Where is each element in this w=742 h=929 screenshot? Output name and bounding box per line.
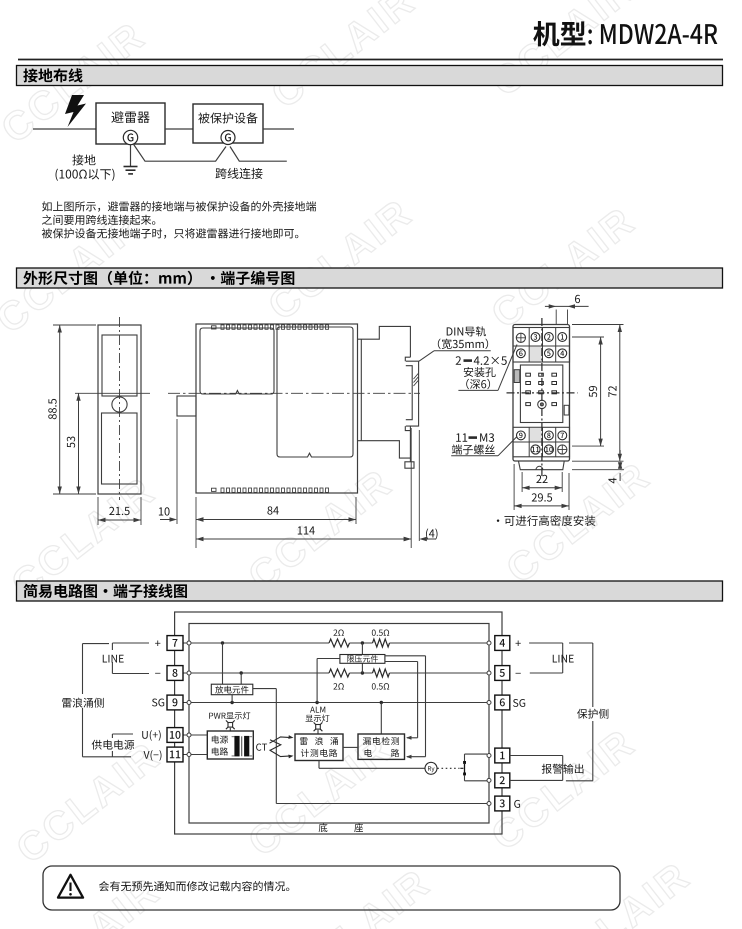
rail break marks: [414, 374, 419, 380]
body text: [42, 201, 316, 211]
relay contact: [464, 754, 466, 761]
top vent slots: [212, 325, 329, 329]
DIN rail clip notch top: [405, 357, 410, 361]
terminal 4: [558, 349, 567, 358]
pin node terminal 1 right: [487, 754, 491, 758]
right mounting bracket upper: [358, 326, 411, 357]
relay dotted link: [437, 767, 459, 769]
dimension 10: [176, 419, 178, 524]
side view body: [196, 324, 358, 493]
junction SG leakage detector: [380, 701, 383, 704]
right mounting bracket lower: [358, 441, 411, 462]
socket middle pin field: [520, 365, 562, 423]
right LINE bracket: [529, 642, 563, 644]
pin node terminal 7: [187, 641, 191, 645]
jumper wire 跨线连接: [133, 144, 226, 162]
side view module B outline: [277, 327, 353, 457]
junction SG varistor/ALM: [315, 701, 318, 704]
wire between boxes: [165, 128, 193, 130]
protection side bracket 保护侧: [569, 642, 593, 644]
socket outline: [513, 325, 570, 462]
terminal 4: [495, 636, 510, 651]
terminal 8: [545, 431, 554, 440]
wire terminal11 to power box: [183, 754, 207, 756]
label terminal screws 11-M3: [456, 433, 467, 441]
front view vertical centerline: [119, 317, 121, 500]
section bar 外形尺寸图: [17, 268, 723, 288]
warning triangle: [58, 875, 83, 898]
dimension 84: [195, 497, 197, 548]
label 底座: [319, 823, 363, 832]
pin node terminal 9: [187, 701, 191, 705]
socket top terminal block: [513, 328, 570, 363]
wire contact to terminal2: [465, 780, 488, 782]
arrester box 避雷器: [96, 103, 165, 144]
lightning bolt: [65, 95, 86, 127]
resistor 0.5ohm line7: [373, 639, 390, 647]
page title 机型: MDW2A-4R: [533, 21, 585, 46]
resistor 2ohm line8: [329, 669, 350, 677]
bottom vent slots: [212, 488, 329, 492]
pin node terminal 6 right: [487, 701, 491, 705]
base outer box 底座: [175, 612, 502, 834]
dimension 114: [196, 538, 411, 540]
left surge side bracket 雷浪涌侧: [82, 644, 84, 757]
left flange: [177, 396, 196, 416]
side view centerline: [168, 392, 420, 394]
label mounting holes 2-4.2x5: [456, 356, 461, 365]
terminal 6: [495, 695, 510, 710]
pin node terminal 4 right: [487, 641, 491, 645]
leakage detector box 漏电检测电路: [358, 734, 405, 759]
dimension 53: [78, 393, 80, 494]
label 跨线连接: [215, 168, 262, 179]
wire measuring box to relay coil: [318, 761, 320, 769]
terminal 1: [558, 333, 567, 342]
center screw: [538, 400, 546, 408]
power supply box 电源电路: [207, 731, 253, 759]
pin node terminal 10: [187, 733, 191, 737]
wire contact to terminal1: [465, 753, 488, 755]
terminal 1: [495, 748, 510, 763]
rail bottom clip: [409, 426, 411, 458]
terminal 7: [558, 431, 567, 440]
terminal 7: [167, 636, 183, 651]
pin node terminal 11: [187, 753, 191, 757]
terminal 10: [167, 728, 183, 743]
dimension 29.5: [513, 464, 515, 510]
terminal G2 of protected equipment: [221, 131, 235, 145]
ground wire from discharge to G: [253, 688, 276, 690]
module inner box: [189, 624, 489, 824]
dimension 59: [572, 336, 604, 338]
varistor right wire inner: [385, 661, 418, 663]
wire between measuring and detector: [343, 746, 358, 748]
terminal 9: [517, 431, 526, 440]
front view lower window: [102, 413, 138, 484]
wire line8 -: [183, 672, 329, 674]
relay coil Ry: [425, 762, 437, 774]
wire outgoing: [263, 128, 294, 130]
terminal 8: [167, 666, 183, 681]
varistor box 限压元件: [361, 643, 363, 655]
CT current transformer: [256, 744, 267, 751]
ground symbol: [124, 166, 138, 168]
left labels: [155, 640, 160, 646]
power supply bracket 供电电源: [111, 734, 113, 757]
warning box: [43, 866, 620, 910]
varistor left wire to SG: [317, 658, 340, 660]
front view outline: [98, 325, 141, 494]
protected equipment box 被保护设备: [193, 104, 263, 143]
front view knob circle: [112, 397, 127, 412]
wire line7 +: [183, 642, 329, 644]
terminal G1 of arrester: [123, 130, 137, 144]
junction line7 discharge tap: [221, 641, 224, 644]
wire incoming: [33, 128, 96, 130]
terminal 3: [495, 796, 510, 811]
right side tab: [564, 405, 569, 415]
socket horizontal centerline: [507, 392, 578, 394]
pin node terminal 8: [187, 671, 191, 675]
dimension (4): [404, 537, 412, 541]
terminal 5: [545, 349, 554, 358]
varistor right wire outer: [385, 655, 426, 657]
surge measuring box 雷浪涌计测电路: [295, 734, 343, 761]
transformer symbol: [232, 736, 235, 738]
side view module A outline: [200, 328, 274, 394]
terminal 6: [517, 349, 526, 358]
terminal 10: [544, 445, 553, 454]
front view upper window: [102, 335, 137, 396]
dimension 72: [572, 324, 624, 326]
ALM indicator lamp: [310, 707, 325, 713]
pin node terminal 2 right: [487, 778, 491, 782]
note high density mounting: [497, 515, 596, 526]
section bar 简易电路图: [17, 581, 723, 601]
ground lead from arrester: [130, 145, 132, 167]
dimension 21.5: [97, 497, 99, 525]
bracket left edge: [360, 339, 362, 441]
dimension 88.5: [53, 324, 96, 326]
junction line8 discharge tap: [240, 671, 243, 674]
terminal 11: [531, 445, 540, 454]
left LINE bracket: [111, 643, 113, 674]
PWR indicator lamp: [209, 712, 250, 720]
junction line8 varistor tap: [361, 671, 364, 674]
socket vertical centerline: [541, 318, 543, 476]
resistor 2ohm line7: [329, 639, 350, 647]
dimension 4: [572, 469, 624, 471]
label 接地: [72, 154, 95, 165]
terminal 2: [495, 773, 510, 788]
wire terminal10 to power box: [183, 734, 207, 736]
dimension 6 top: [555, 310, 557, 326]
section bar 接地布线: [17, 66, 723, 86]
bracket lower hook: [405, 462, 414, 468]
dimension 22: [521, 472, 523, 492]
front view horizontal centerline: [75, 392, 150, 394]
wire SG line: [183, 702, 487, 704]
junction SG discharge: [230, 701, 233, 704]
resistor 0.5ohm line8: [373, 669, 390, 677]
terminal 11: [167, 747, 183, 762]
bottom mounting hole screw: [558, 445, 567, 454]
terminal 3: [531, 333, 540, 342]
discharge element box 放电元件: [222, 643, 224, 684]
label DIN rail: [447, 326, 486, 336]
left side tab: [514, 370, 520, 383]
junction line7 varistor tap: [361, 641, 364, 644]
socket bottom terminal block: [513, 427, 570, 457]
label 100 ohm max: [56, 169, 115, 181]
top mounting hole screw: [516, 333, 525, 342]
SG to leakage detector wire: [380, 703, 382, 735]
socket bottom tab: [519, 461, 565, 470]
DIN rail C profile: [406, 361, 419, 426]
terminal 5: [495, 666, 510, 681]
pin node terminal 5 right: [487, 671, 491, 675]
terminal 9: [167, 695, 183, 710]
pin node terminal 3 right: [487, 802, 491, 806]
header rule: [18, 59, 723, 61]
warning text: [99, 881, 289, 891]
right labels: [516, 640, 521, 646]
terminal 2: [545, 333, 554, 342]
alarm output bracket 报警输出: [510, 755, 563, 757]
rail extension below: [410, 428, 412, 548]
